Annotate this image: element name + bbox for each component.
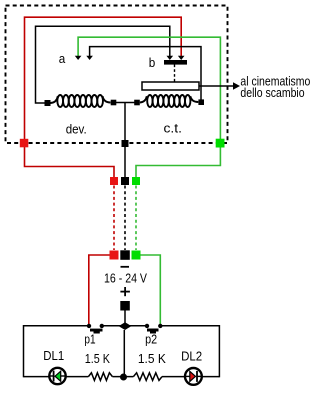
svg-text:16 - 24 V: 16 - 24 V: [104, 270, 147, 285]
coil dev. left terminal square: [45, 100, 51, 106]
center tap wire between coils: [116, 102, 135, 104]
battery minus: [121, 266, 130, 268]
button p2 cap: [147, 329, 159, 332]
battery terminal square: [120, 301, 130, 311]
dashed mechanical link: [174, 65, 176, 83]
junction diamond: [119, 322, 132, 330]
box right edge: [218, 325, 220, 377]
wire green to button p2: [141, 255, 161, 324]
svg-text:DL1: DL1: [43, 348, 64, 363]
dashed cable red: [113, 186, 115, 251]
border square black: [122, 140, 129, 147]
arrowhead green at contact a: [75, 56, 82, 60]
resistor R1 1.5K: [88, 373, 112, 381]
supply square green: [132, 251, 141, 260]
supply square black: [120, 250, 130, 259]
top rail segment left: [24, 325, 90, 327]
dashed cable black: [124, 186, 126, 251]
supply square red: [110, 251, 119, 260]
coil c.t. right terminal square: [198, 99, 204, 105]
center tap down wire: [124, 103, 126, 178]
svg-text:c.t.: c.t.: [164, 121, 183, 136]
wire green (contact a to right border square): [78, 37, 220, 139]
svg-text:p2: p2: [145, 332, 157, 347]
svg-text:dello scambio: dello scambio: [240, 85, 304, 100]
arrowhead red at contact b: [178, 56, 185, 60]
battery wire down: [124, 311, 126, 325]
svg-text:dev.: dev.: [66, 122, 87, 137]
svg-text:1.5 K: 1.5 K: [85, 351, 110, 366]
wire red (feed to contact b, left branch down to panel): [25, 17, 182, 177]
arrowhead black 1 at contact b: [167, 56, 174, 60]
svg-text:p1: p1: [84, 332, 95, 347]
dashed cable green: [135, 186, 137, 251]
arrowhead black 2 at contact a: [86, 56, 93, 60]
center vertical to bottom rail: [123, 330, 125, 377]
border square red: [20, 139, 29, 148]
LED DL2: [185, 368, 202, 385]
LED DL1: [49, 368, 65, 384]
wire red to button p1: [89, 255, 110, 324]
border square green: [216, 139, 225, 148]
button p1 cap: [90, 329, 103, 332]
top rail segment right: [160, 325, 219, 327]
panel square red: [110, 177, 118, 185]
dashed enclosure (point machine boundary): [6, 6, 228, 144]
bottom junction dot: [120, 374, 127, 381]
battery plus: [120, 291, 129, 293]
drive bar rectangle: [142, 82, 199, 90]
box left edge: [23, 325, 25, 377]
button p2 contact dots: [145, 324, 149, 328]
coil c.t. left terminal square: [134, 100, 140, 106]
coil dev. right terminal square: [111, 100, 117, 106]
top rail segment middle: [102, 325, 147, 327]
button p1 contact dots: [87, 324, 91, 328]
panel square green: [132, 177, 140, 185]
moving contact bar b: [164, 60, 187, 65]
wire black 2 (contact a to coil c.t. right terminal): [90, 47, 201, 100]
svg-text:1.5 K: 1.5 K: [138, 351, 166, 366]
panel square black: [121, 177, 129, 185]
coil c.t.: [140, 95, 199, 107]
resistor R2 1.5K: [133, 373, 162, 381]
wire black 1 (contact b to coil dev. left terminal): [36, 26, 170, 103]
wire green lower (border square to panel green square): [136, 147, 220, 177]
svg-text:DL2: DL2: [181, 348, 202, 363]
coil dev.: [51, 95, 111, 107]
arrow to cinematismo: [199, 85, 234, 87]
svg-text:a: a: [59, 51, 66, 66]
svg-text:b: b: [149, 55, 156, 70]
bottom rail segments: [24, 376, 50, 378]
